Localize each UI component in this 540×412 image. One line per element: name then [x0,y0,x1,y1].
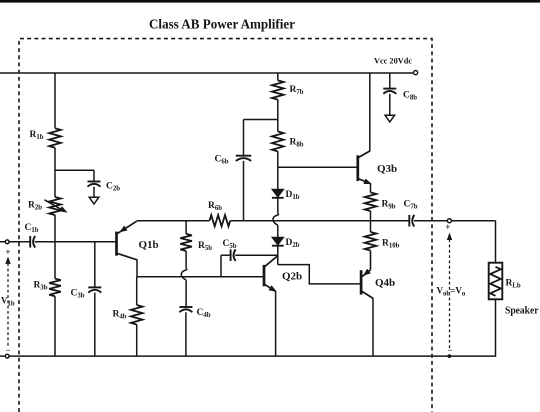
wire C8b top [389,73,391,89]
svg-text:Vcc 20Vdc: Vcc 20Vdc [374,56,412,66]
resistor R6b [210,215,231,226]
wire R4b top [136,277,138,305]
wire R10b top [370,221,372,232]
resistor R4b [131,305,143,325]
wire R8b-D1b [277,151,279,189]
transistor Q3b bar [356,155,359,181]
wire to C4b [185,280,187,307]
transistor Q1b bar [115,232,118,256]
svg-text:+: + [5,247,10,257]
speaker load box RLb [489,263,503,300]
svg-text:Q2b: Q2b [282,271,302,283]
wire R2b-input junction [54,215,56,242]
dashed enclosure box [19,39,432,412]
wire speaker bottom [495,299,497,357]
svg-text:Speaker: Speaker [505,305,539,317]
wire collector rail mid [230,220,409,222]
resistor R1b [49,128,61,147]
wire C6b riser [243,120,245,156]
diode D1b [272,189,284,197]
capacitor C8b [383,88,396,90]
wire link step [278,265,361,284]
wire input stub [0,241,30,243]
resistor R10b [365,232,377,251]
wire collector rail left [137,220,210,222]
wire hop-D2b [277,225,279,237]
wire R3b-bottom [54,296,56,356]
wire Q3b emitter to R9b [370,183,372,192]
wire C5b left riser [220,255,222,277]
speaker load zigzag [490,267,501,296]
capacitor C1b [29,236,31,248]
wire collector rail to output [414,220,496,222]
resistor R7b [272,80,284,99]
wire ground bottom rail [0,355,496,357]
wire R4b bottom [136,325,138,357]
wire Q2b emitter down [275,291,277,356]
ground below C2b [89,197,99,204]
svg-text:Class AB Power Amplifier: Class AB Power Amplifier [149,18,295,33]
wire C2b top [93,170,95,181]
Vob arrowhead [447,233,452,240]
resistor R2b (variable) [49,197,61,215]
Q3b emitter arrow (NPN) [363,178,371,184]
wire Vcc top rail [0,72,414,74]
resistor R9b [365,192,377,211]
resistor R8b [272,131,284,151]
wire R7b-R8b [277,100,279,132]
Q4b emitter arrow (PNP) [363,269,371,276]
wire R1b top [54,73,56,128]
wire Q3b base [278,166,358,168]
diode D2b [272,237,284,245]
capacitor C7b [408,215,410,227]
transistor Q2b bar [263,265,266,286]
wire C3b top [94,242,96,288]
svg-text:Q3b: Q3b [377,163,397,175]
wire C3b bottom [94,293,96,357]
wire R9b bottom [370,211,372,221]
Vob dashed line [449,234,451,350]
wire C8b-ground [389,94,391,115]
Q4b emitter arm [362,270,370,277]
wire speaker top [495,221,497,263]
input node circle [5,240,9,244]
V1b dashed source line [7,258,9,348]
ground below C8b [385,115,395,122]
output node circle [447,219,451,223]
wire C6b bottom [243,161,245,221]
wire Q1b collector down [136,259,138,277]
wire emitter rail [137,276,264,278]
Q4b collector arm [362,291,374,298]
wire R1b-R2b [54,148,56,197]
wire D1b-hop [277,198,279,213]
wire Q4b collector down [372,298,374,356]
wire R7b top [277,73,279,80]
transistor Q4b bar [360,270,363,294]
wire hop over emitter rail [181,268,187,279]
wire C6b branch top [244,119,278,121]
wire hop over collector rail [273,213,279,225]
wire R5b top [185,221,187,234]
wire C5b left [221,254,231,256]
Q1b collector arm [117,253,137,259]
wire C5b right [235,254,278,256]
Q2b collector arm [264,256,278,267]
resistor R3b top wire [54,242,56,279]
top border bar [0,0,540,3]
svg-text:Q1b: Q1b [139,239,159,251]
wire C2b-ground [93,187,95,198]
Q3b emitter arm [358,179,370,184]
Q4b emitter wire [370,251,372,270]
R2b wiper arrow [45,200,63,210]
svg-text:−: − [448,345,453,355]
wire D2b-junction [277,246,279,265]
svg-text:−: − [6,345,11,355]
wire branch to C2b [55,169,94,171]
resistor R3b [49,279,61,297]
capacitor C4b [179,306,192,308]
wire Q3b collector up [369,73,371,152]
svg-text:+: + [445,222,450,232]
capacitor C3b [88,286,101,288]
wire C1b to Q1b base [35,241,117,243]
Q3b collector arm [358,151,370,158]
capacitor C5b [230,249,232,261]
svg-text:Q4b: Q4b [375,277,395,289]
Q1b emitter arm [117,221,137,234]
V1b arrowhead [5,257,10,264]
input ground node circle [5,354,9,358]
Q2b emitter arm [264,284,275,291]
wire R5b bottom [185,251,187,269]
resistor R5b [180,234,192,251]
Vob ground dot [448,354,452,358]
Q1b emitter arrow (PNP) [119,226,127,233]
Q2b emitter arrow (NPN) [269,285,277,292]
capacitor C2b [88,181,101,183]
wire C4b bottom [185,312,187,356]
Vcc terminal circle [414,71,418,75]
capacitor C6b [236,155,251,157]
